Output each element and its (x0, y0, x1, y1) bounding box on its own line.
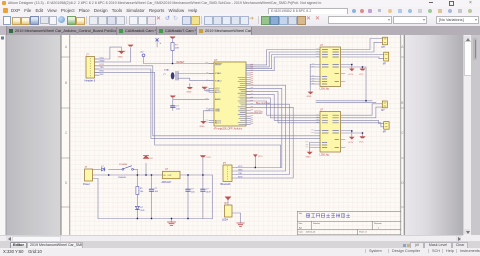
svg-text:AVCC: AVCC (215, 91, 221, 94)
svg-text:TXD: TXD (100, 67, 105, 69)
svg-text:+12V: +12V (348, 74, 354, 76)
editor bar (0, 241, 480, 249)
wire C4 branch VCC (202, 157, 204, 218)
connector J1 (86, 57, 95, 79)
svg-text:Sheet of: Sheet of (359, 231, 367, 234)
power jack J2 (85, 169, 93, 181)
svg-text:RXD: RXD (100, 71, 105, 73)
bluetooth pin stubs (232, 168, 237, 179)
VCC flag above rail (143, 156, 148, 159)
wire bundle U1 to U2 pin group B (246, 52, 321, 67)
wire U3 to motor connector M4 pin2 (341, 123, 384, 127)
ground arrow below U2 (308, 92, 314, 95)
svg-text:POWER: POWER (119, 164, 128, 166)
U1 right pin stubs (246, 65, 251, 125)
U1 left pin names (215, 63, 223, 124)
svg-text:ADC7: ADC7 (215, 122, 222, 125)
menu bar (0, 7, 480, 14)
wire U1 AREF to C5 (173, 97, 209, 110)
wire U1 GND pins (203, 109, 214, 121)
wire M3 feed rails (316, 101, 376, 103)
IC U2 motor driver (320, 47, 341, 87)
wire U3 to motor connector M3 (341, 104, 382, 115)
wire bundle U1 to U2 pin group C (246, 55, 321, 69)
wire U2 VCC supply (341, 67, 366, 101)
U3 left pin numbers (306, 115, 319, 147)
power bar at U1 VCC (202, 87, 208, 89)
svg-text:VCC: VCC (359, 142, 364, 144)
svg-text:2019-5-10: 2019-5-10 (306, 232, 316, 234)
diode D1 (102, 168, 105, 171)
vertical scrollbar (463, 35, 472, 235)
toolbar (0, 14, 480, 27)
zone tick marks (61, 57, 404, 207)
svg-text:VCC: VCC (149, 158, 154, 160)
svg-text:VCC: VCC (206, 157, 211, 159)
wire bundle U1 to U3 pin C (246, 95, 321, 121)
wire switch down to rail (93, 169, 163, 175)
wire U3 lower left to ground (309, 143, 311, 152)
capacitor C2 (149, 189, 153, 191)
svg-text:GND: GND (306, 156, 311, 158)
ground symbol below D3 (237, 223, 244, 226)
svg-text:AREF: AREF (215, 98, 221, 101)
wire J1 pin6 stub (95, 74, 100, 76)
VCC flag above D3 (225, 197, 230, 200)
VS power arrow at U2 (349, 69, 355, 72)
capacitor C5 (171, 106, 175, 108)
wire ground bus stem (171, 219, 173, 223)
wire U2 VS supply (341, 65, 352, 69)
port +5V circle (142, 54, 145, 57)
wire LED Din stub (246, 112, 262, 114)
crystal Y1 (171, 72, 175, 79)
U1 right pin name text rows (238, 78, 245, 125)
wire resistor R1 branch (172, 38, 174, 63)
motor connector M1 (383, 37, 388, 45)
no-ERC marker (156, 39, 159, 42)
ground bar under crystal (187, 87, 193, 89)
U1 right pin numbers (251, 64, 253, 124)
svg-text:VCC: VCC (100, 57, 105, 59)
motor connector M4 (384, 122, 389, 130)
svg-text:Number: Number (313, 223, 320, 225)
VCC power bar at U2 (360, 69, 366, 71)
svg-text:B: B (401, 101, 403, 105)
IC U1 ATmega328 (214, 62, 246, 126)
svg-text:1N4008: 1N4008 (118, 177, 126, 179)
wire J1 pin2 to VCC bar (95, 48, 131, 62)
svg-text:XTAL1: XTAL1 (215, 72, 222, 75)
svg-text:L298_Ng: L298_Ng (320, 89, 330, 91)
wire VCC flag stem (145, 163, 147, 175)
power port VCC bar above R1 (170, 37, 176, 39)
U2 right pin stubs (341, 74, 345, 82)
svg-text:+5V: +5V (140, 52, 144, 54)
power port arrow down at J1 (119, 51, 125, 54)
svg-text:10K: 10K (175, 48, 179, 50)
sheet (61, 35, 405, 235)
U2 left pin stubs lower (310, 65, 320, 85)
horizontal scrollbar (0, 235, 463, 242)
svg-text:Header 6: Header 6 (85, 79, 96, 83)
wire RESET net (144, 57, 215, 64)
svg-text:U?: U? (214, 58, 218, 62)
wire bundle U1 to U3 pin D (246, 92, 321, 123)
VCC power bar at U3 (360, 136, 366, 138)
svg-text:LED4: LED4 (222, 218, 229, 221)
U3 left pin stubs lower (310, 131, 321, 148)
U3 pin name text rows (322, 115, 338, 147)
ground symbol at bus (168, 222, 176, 225)
LED D2 (135, 206, 139, 209)
resistor R2 (136, 187, 139, 195)
U2 pin name text rows (322, 50, 338, 85)
ground bar above C5 (170, 96, 176, 98)
wire U2 to motor connector M2 pin2 (341, 57, 384, 59)
wire ground bus (98, 218, 213, 220)
svg-text:VCC: VCC (238, 166, 243, 168)
wire diode to switch (109, 168, 122, 170)
svg-text:XTAL: XTAL (164, 69, 170, 72)
VCC bar above C4 (200, 155, 206, 157)
svg-text:LED Din: LED Din (254, 112, 263, 114)
wire U1 to bluetooth VCC (237, 88, 282, 167)
title bar (0, 0, 480, 8)
svg-text:Power: Power (83, 183, 90, 186)
power port VCC bar at J1 (128, 45, 134, 47)
wire bundle U1 to U2 pin group D (246, 57, 321, 71)
svg-text:VCC: VCC (359, 74, 364, 76)
svg-text:Bluetooth: Bluetooth (221, 183, 232, 186)
wire U1 to bluetooth RXD (237, 107, 294, 178)
wire U2 to motor connector M1 pin2 (341, 42, 383, 52)
wire U1 to bluetooth TXD (237, 104, 290, 174)
switch S1 (122, 168, 124, 170)
title block frame (298, 211, 401, 235)
wire C3 branch (187, 175, 189, 219)
wire U2 to motor connector M2 (341, 54, 384, 56)
wire J1 pin4 RXD long run to U3 (95, 69, 322, 138)
svg-text:L298_Ng: L298_Ng (320, 154, 330, 156)
sheet inner border left (69, 35, 71, 235)
canvas gray right (405, 35, 464, 235)
svg-text:GND: GND (100, 60, 105, 62)
sheet outer border left (60, 35, 62, 235)
svg-text:IN OUT: IN OUT (164, 175, 173, 177)
title text (chinese) (307, 214, 350, 218)
bluetooth connector P1 (223, 165, 232, 182)
svg-text:Date:: Date: (299, 231, 304, 234)
canvas (0, 35, 463, 235)
ground arrow below U1 GND pins (200, 121, 206, 124)
U1 underline RESET (215, 64, 221, 66)
ground arrow below U3 (307, 152, 313, 155)
motor connector M2 (384, 52, 389, 61)
wire U3 VCC supply (341, 133, 363, 136)
wire J1 pin1 to power port (95, 47, 122, 59)
wire D3 top (227, 200, 229, 205)
wire U2 to motor connector M1 (341, 39, 383, 50)
svg-text:10uF: 10uF (206, 192, 211, 194)
svg-text:RESET: RESET (177, 61, 186, 64)
tab bar (0, 26, 480, 35)
left panel strip (0, 35, 6, 235)
regulator U4 AMS1117 (163, 171, 181, 178)
svg-text:DTR: DTR (100, 64, 105, 66)
wire D3 to ground (232, 213, 241, 223)
U1 left pin numbers (206, 63, 209, 122)
U1 left pin stubs (209, 64, 214, 81)
wire regulator output rail (180, 175, 213, 219)
wire U1 VCC pins (205, 88, 215, 92)
resistor R1 (171, 43, 174, 51)
wire C2 branch (151, 175, 153, 219)
wire U1 to bluetooth GND (237, 85, 286, 171)
wire bundle U1 to U3 pin A (246, 101, 321, 115)
motor connector M3 (382, 101, 387, 108)
U3 right pin stubs (341, 140, 345, 148)
svg-text:+12V: +12V (348, 142, 354, 144)
svg-text:AMS1117: AMS1117 (162, 181, 172, 184)
capacitor C4 (201, 189, 205, 191)
wire U3 to motor connector M4 (341, 120, 384, 123)
svg-text:GND: GND (187, 92, 192, 94)
wire J1 pin5 long run down (95, 72, 281, 167)
wire R2 branch with LED (136, 175, 138, 219)
svg-text:ATmega328_QFP_Arduino: ATmega328_QFP_Arduino (214, 127, 243, 130)
sheet outer border right (403, 35, 405, 235)
wire jack shield down (93, 179, 99, 219)
wire U3 to motor connector M3 pin2 (341, 107, 382, 118)
wire XTAL1 (178, 73, 214, 75)
svg-text:VCC: VCC (258, 156, 263, 158)
svg-text:GND: GND (307, 96, 312, 98)
svg-text:B: B (65, 81, 67, 85)
svg-text:LED: LED (140, 210, 145, 212)
wire XTAL2 (178, 78, 214, 81)
wire bluetooth VCC arrow stem (254, 157, 256, 167)
svg-text:TXD: TXD (238, 173, 243, 175)
U2 left pin numbers (312, 49, 319, 84)
capacitor C3 (186, 189, 190, 191)
wire J1 pin3 TXD long run to U3 (95, 66, 322, 136)
wire U2 lower left pins to ground (309, 65, 311, 92)
svg-text:GND: GND (238, 170, 243, 172)
svg-text:··: ·· (118, 59, 120, 61)
wire bundle U1 to U2 pin group A (246, 50, 321, 65)
sheet inner border right (400, 35, 402, 235)
LED strip connector D3 (225, 205, 233, 217)
wire U1 ADC stubs (209, 121, 214, 123)
svg-text:XTAL2: XTAL2 (215, 80, 222, 83)
IC U3 motor driver (320, 112, 341, 153)
canvas gray left (7, 35, 61, 235)
svg-text:Revision: Revision (374, 223, 382, 225)
svg-text:RESET: RESET (215, 63, 223, 65)
svg-text:GND: GND (200, 126, 205, 128)
right panel strip (471, 35, 480, 235)
svg-text:RXD: RXD (238, 177, 243, 179)
svg-text:Blue tooth set: Blue tooth set (256, 102, 270, 105)
connector J1 pin stubs (95, 59, 100, 75)
wire power jack to diode (93, 168, 101, 170)
wire U3 VS supply (341, 131, 352, 137)
wire bundle U1 to U3 pin B (246, 98, 321, 118)
svg-text:GND: GND (215, 111, 220, 113)
status bar (0, 248, 480, 256)
VS power arrow at U3 (349, 137, 355, 140)
VCC arrow above bluetooth (253, 154, 258, 157)
